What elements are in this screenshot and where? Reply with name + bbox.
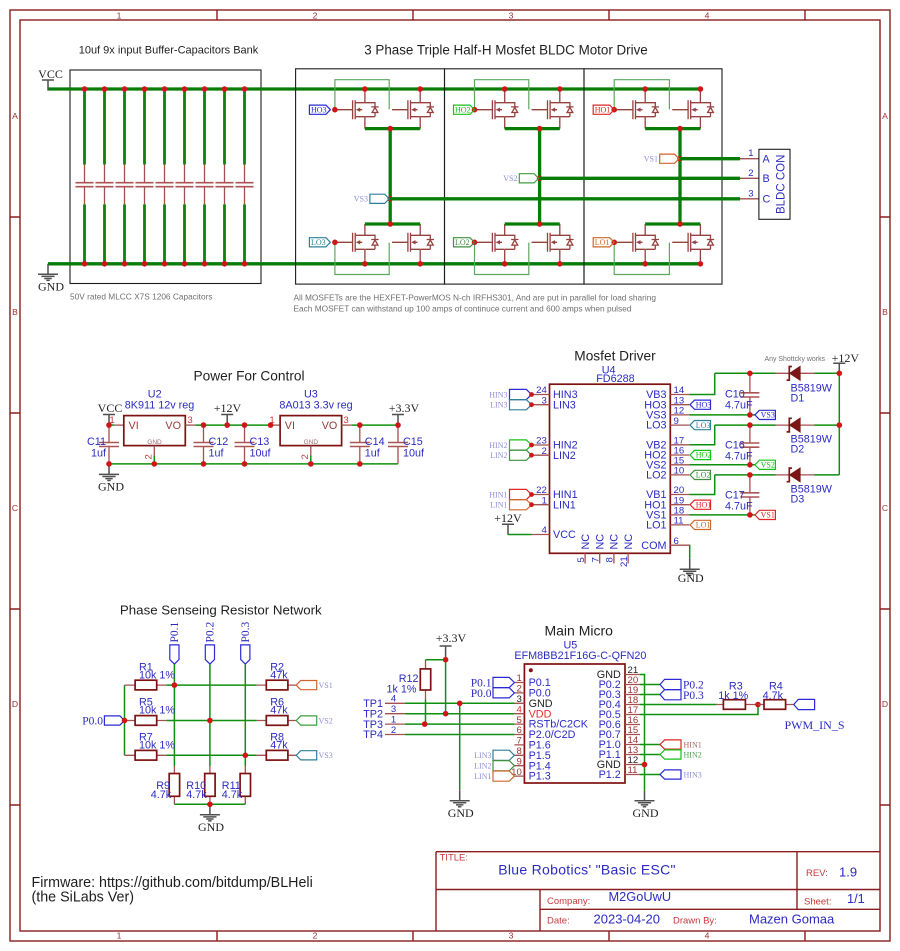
- svg-text:4.7k: 4.7k: [763, 690, 784, 702]
- svg-text:LIN1: LIN1: [490, 501, 507, 510]
- wire column P0.1: [173, 664, 175, 766]
- svg-text:Date:: Date:: [547, 916, 570, 927]
- resistor R2: [257, 684, 297, 686]
- driver U4 body: [550, 384, 671, 553]
- regulator U2 body: [124, 416, 186, 446]
- resistor R4: [758, 704, 794, 706]
- svg-text:Power For Control: Power For Control: [193, 369, 304, 384]
- svg-text:VS3: VS3: [354, 195, 368, 204]
- svg-text:3 Phase Triple Half-H Mosfet B: 3 Phase Triple Half-H Mosfet BLDC Motor …: [364, 43, 648, 58]
- svg-text:10: 10: [511, 767, 522, 778]
- wire source bar high-side (phase A): [645, 127, 700, 130]
- capacitor C9 (bank): [236, 86, 254, 266]
- svg-text:1: 1: [541, 495, 546, 506]
- svg-text:B: B: [12, 307, 18, 317]
- flag HO1: [593, 105, 614, 114]
- svg-text:NC: NC: [623, 534, 635, 550]
- wire VB1 to bootstrap rail 1: [689, 475, 839, 495]
- wire U2 to U3: [195, 424, 270, 426]
- wire phase B vertical: [538, 129, 541, 224]
- svg-text:3: 3: [509, 930, 514, 940]
- svg-text:LO3: LO3: [646, 420, 666, 432]
- wire source bar high-side (phase C): [365, 127, 420, 130]
- svg-text:+3.3V: +3.3V: [389, 401, 420, 415]
- wire pin21 GND down: [640, 675, 645, 791]
- junctions sense network: [172, 682, 178, 688]
- svg-text:A: A: [763, 153, 771, 165]
- wire phase A vertical: [678, 129, 681, 224]
- svg-text:VS1: VS1: [761, 511, 775, 520]
- svg-text:Each MOSFET can withstand up 1: Each MOSFET can withstand up 100 amps of…: [294, 304, 632, 314]
- svg-text:VS1: VS1: [319, 681, 333, 690]
- ground (micro right): [635, 790, 655, 807]
- wire GND rail: [48, 262, 700, 265]
- junctions power ground rail: [106, 461, 112, 467]
- svg-text:GND: GND: [448, 806, 474, 820]
- flag LO3 (driver): [690, 421, 711, 430]
- svg-text:HIN2: HIN2: [489, 441, 507, 450]
- svg-text:GND: GND: [633, 806, 659, 820]
- svg-text:D: D: [882, 699, 888, 709]
- flag VS3: [370, 194, 389, 203]
- ground (micro left): [450, 790, 470, 807]
- svg-text:4.7uF: 4.7uF: [725, 500, 753, 512]
- svg-text:VCC: VCC: [38, 67, 63, 81]
- wire HO3 gate net: [335, 109, 337, 111]
- svg-text:D: D: [12, 699, 18, 709]
- capacitor C17: [740, 475, 759, 515]
- svg-text:3: 3: [748, 188, 753, 199]
- capacitor C4 (bank): [136, 86, 154, 266]
- svg-text:GND: GND: [304, 439, 319, 446]
- wire VS2: [689, 464, 755, 466]
- svg-text:LIN3: LIN3: [553, 399, 576, 411]
- svg-text:P1.2: P1.2: [599, 769, 621, 781]
- svg-text:4.7k: 4.7k: [186, 789, 207, 801]
- flag LO1 (driver): [690, 520, 711, 529]
- flag P0.2 (down): [205, 645, 214, 664]
- svg-text:10: 10: [674, 466, 685, 477]
- svg-text:2: 2: [313, 11, 318, 21]
- wire P1.0 to HIN1 flag: [640, 744, 660, 746]
- svg-text:GND: GND: [147, 439, 162, 446]
- svg-text:1uf: 1uf: [365, 448, 381, 460]
- svg-text:47k: 47k: [270, 740, 288, 752]
- capacitor C7 (bank): [196, 86, 214, 266]
- junction R3-R4: [755, 702, 761, 708]
- flag P0.3 (down): [241, 645, 250, 664]
- wire VB3 to bootstrap rail 3: [689, 373, 839, 394]
- svg-text:NC: NC: [609, 534, 621, 550]
- svg-text:GND: GND: [98, 480, 124, 494]
- svg-text:Mazen Gomaa: Mazen Gomaa: [749, 912, 835, 927]
- flag P0.2 (micro): [660, 679, 681, 689]
- testpoint TP leads: [385, 703, 405, 734]
- svg-text:VCC: VCC: [553, 529, 576, 541]
- capacitor C12: [194, 425, 214, 464]
- svg-text:HIN1: HIN1: [684, 740, 702, 749]
- svg-text:LO2: LO2: [696, 471, 711, 480]
- svg-text:4.7uF: 4.7uF: [725, 451, 753, 463]
- svg-text:P0.0: P0.0: [82, 716, 103, 728]
- svg-text:REV:: REV:: [806, 868, 828, 879]
- wire VS1: [689, 514, 755, 516]
- svg-text:VS1: VS1: [644, 154, 658, 163]
- wire P0.3 to flag: [640, 694, 660, 696]
- resistor R6: [257, 720, 297, 722]
- svg-text:+3.3V: +3.3V: [436, 631, 467, 645]
- svg-text:FD6288: FD6288: [596, 373, 634, 385]
- svg-text:LO2: LO2: [455, 238, 470, 247]
- svg-text:50V rated MLCC X7S 1206 Capaci: 50V rated MLCC X7S 1206 Capacitors: [70, 292, 213, 302]
- svg-text:D3: D3: [791, 493, 805, 505]
- resistor R10: [209, 766, 211, 804]
- svg-text:4.7k: 4.7k: [151, 789, 172, 801]
- flag HO3: [309, 105, 330, 114]
- svg-text:All MOSFETs are the HEXFET-Pow: All MOSFETs are the HEXFET-PowerMOS N-ch…: [294, 293, 657, 303]
- mosfet drive enclosure box phase A: [584, 69, 722, 284]
- svg-text:1: 1: [117, 11, 122, 21]
- svg-text:BLDC CON: BLDC CON: [776, 155, 788, 214]
- svg-text:VS2: VS2: [319, 716, 333, 725]
- wire P1.2 to HIN3 flag: [640, 774, 660, 776]
- junctions micro left: [457, 701, 463, 707]
- svg-text:B: B: [882, 307, 888, 317]
- wire drain bar low-side (phase C): [365, 222, 420, 225]
- wire phase B to connector: [540, 177, 740, 180]
- svg-text:LO1: LO1: [646, 520, 666, 532]
- flag LO1: [593, 238, 614, 247]
- svg-text:LIN2: LIN2: [490, 451, 507, 460]
- svg-text:11: 11: [628, 765, 638, 776]
- transistor Q4 low-side right (phase C): [392, 224, 434, 261]
- wire +12V to U4 VCC: [508, 534, 532, 536]
- svg-text:3: 3: [509, 11, 514, 21]
- wire COM to ground: [688, 545, 690, 559]
- svg-text:+12V: +12V: [214, 401, 242, 415]
- flag HO2 (driver): [690, 450, 711, 459]
- flag LIN3 (driver input): [510, 400, 532, 410]
- wire P0.5 riser: [640, 705, 758, 715]
- svg-text:LO3: LO3: [696, 421, 711, 430]
- svg-text:8: 8: [605, 557, 616, 562]
- transistor Q1 high-side left (phase C): [337, 91, 379, 128]
- wire HO1 gate net: [614, 109, 617, 111]
- transistor Q3 low-side left (phase C): [337, 224, 379, 261]
- junctions driver right: [747, 371, 753, 377]
- flag P0.0 (micro): [493, 688, 514, 698]
- flag LIN1 (micro): [493, 771, 514, 781]
- ground (power section): [99, 464, 119, 481]
- svg-text:HIN2: HIN2: [684, 750, 702, 759]
- wire phase C vertical: [389, 129, 392, 224]
- svg-text:4: 4: [705, 11, 710, 21]
- svg-text:47k: 47k: [270, 705, 288, 717]
- svg-text:1/1: 1/1: [847, 891, 865, 906]
- transistor Q12 low-side right (phase A): [672, 224, 714, 261]
- svg-text:HO1: HO1: [696, 500, 712, 509]
- U4 right pin leads: [670, 395, 689, 546]
- flag PWM_IN_S: [794, 699, 815, 709]
- wire LO3 gate net: [335, 241, 337, 243]
- svg-text:GND: GND: [38, 280, 64, 294]
- capacitor C1 (bank): [76, 86, 94, 266]
- transistor Q8 low-side right (phase B): [532, 224, 574, 261]
- svg-text:LIN3: LIN3: [474, 751, 491, 760]
- svg-text:2: 2: [300, 454, 311, 459]
- svg-text:2: 2: [748, 168, 753, 179]
- svg-text:+12V: +12V: [494, 511, 522, 525]
- resistor R7: [125, 754, 167, 756]
- svg-text:2: 2: [313, 930, 318, 940]
- flag VS2 (driver): [755, 460, 776, 469]
- svg-text:2: 2: [391, 725, 396, 736]
- svg-text:6: 6: [516, 725, 521, 736]
- wire TP3 to RSTb pin: [405, 723, 515, 725]
- wire sense ground rail: [174, 803, 245, 805]
- resistor R8: [257, 754, 297, 756]
- resistor R9: [173, 766, 175, 804]
- svg-text:Mosfet Driver: Mosfet Driver: [574, 349, 656, 364]
- svg-text:1.9: 1.9: [839, 864, 857, 879]
- title block outline: [436, 852, 880, 931]
- svg-text:B: B: [763, 173, 770, 185]
- junctions phase A: [642, 86, 648, 92]
- diode D1: [775, 366, 814, 380]
- ground (driver COM): [680, 559, 700, 576]
- flag HIN1 (driver input): [510, 489, 532, 499]
- svg-text:GND: GND: [678, 571, 704, 585]
- svg-text:10k 1%: 10k 1%: [139, 705, 175, 717]
- connector BLDC CON body: [759, 149, 790, 219]
- svg-text:COM: COM: [641, 540, 666, 552]
- svg-text:PWM_IN_S: PWM_IN_S: [785, 718, 845, 732]
- svg-text:LIN1: LIN1: [474, 772, 491, 781]
- svg-text:4.7k: 4.7k: [222, 789, 243, 801]
- svg-text:4: 4: [705, 930, 710, 940]
- wire row VS3: [166, 754, 256, 756]
- svg-text:VI: VI: [285, 420, 295, 432]
- svg-text:4: 4: [541, 525, 547, 536]
- svg-text:1: 1: [748, 148, 753, 159]
- svg-text:P0.3: P0.3: [683, 690, 704, 702]
- resistor R12: [425, 660, 427, 700]
- svg-text:NC: NC: [580, 534, 592, 550]
- mosfet drive enclosure box phase C: [296, 69, 445, 284]
- regulator U3 pin2 lead: [310, 446, 312, 456]
- svg-text:10k 1%: 10k 1%: [139, 740, 175, 752]
- svg-text:LIN2: LIN2: [474, 762, 491, 771]
- flag HIN3 (micro): [660, 770, 681, 779]
- svg-text:VS2: VS2: [761, 461, 775, 470]
- wire column P0.3: [244, 664, 246, 766]
- regulator U2 pin2 lead: [153, 446, 155, 456]
- svg-text:HO2: HO2: [455, 105, 471, 114]
- capacitor C14: [350, 425, 370, 464]
- wire LO2 gate net: [475, 241, 477, 243]
- wire TP2 to VDD pin: [405, 713, 515, 715]
- svg-text:10uf 9x input Buffer-Capacitor: 10uf 9x input Buffer-Capacitors Bank: [79, 45, 259, 57]
- capacitor C8 (bank): [216, 86, 234, 266]
- transistor Q11 low-side left (phase A): [617, 224, 659, 261]
- svg-text:8A013 3.3v reg: 8A013 3.3v reg: [279, 400, 352, 412]
- diode D2: [775, 418, 814, 432]
- flag LIN2 (driver input): [510, 450, 532, 460]
- svg-text:LO1: LO1: [696, 521, 711, 530]
- svg-text:Main Micro: Main Micro: [544, 623, 613, 639]
- svg-text:1uf: 1uf: [91, 448, 107, 460]
- svg-text:D2: D2: [791, 444, 805, 456]
- svg-text:C: C: [12, 503, 18, 513]
- wire VCC to U2: [109, 424, 114, 426]
- svg-text:Company:: Company:: [547, 896, 590, 907]
- junctions power top rail: [106, 422, 112, 428]
- flag VS1 (driver): [755, 510, 776, 519]
- wire +12V vertical: [838, 373, 840, 475]
- svg-text:9: 9: [516, 756, 521, 767]
- svg-text:47k: 47k: [270, 669, 288, 681]
- svg-text:1k 1%: 1k 1%: [386, 684, 416, 696]
- svg-text:LIN1: LIN1: [553, 499, 576, 511]
- svg-text:VO: VO: [165, 420, 181, 432]
- flag LIN3 (micro): [493, 750, 514, 760]
- svg-text:HO1: HO1: [595, 105, 611, 114]
- svg-text:HO3: HO3: [311, 105, 327, 114]
- svg-text:NC: NC: [594, 534, 606, 550]
- svg-text:EFM8BB21F16G-C-QFN20: EFM8BB21F16G-C-QFN20: [514, 650, 646, 662]
- svg-text:1: 1: [516, 673, 521, 684]
- svg-text:8: 8: [516, 746, 521, 757]
- flag LIN1 (driver input): [510, 500, 532, 510]
- flag VS3 (sense): [296, 751, 317, 760]
- ground (sense network): [200, 804, 220, 821]
- flag P0.1 (micro): [493, 677, 514, 687]
- svg-text:P0.0: P0.0: [471, 688, 492, 700]
- svg-text:LO1: LO1: [595, 238, 610, 247]
- svg-text:Blue Robotics' "Basic ESC": Blue Robotics' "Basic ESC": [498, 862, 676, 878]
- transistor Q2 high-side right (phase C): [392, 91, 434, 128]
- flag VS3 (driver): [755, 410, 776, 419]
- wire column P0.2: [209, 664, 211, 766]
- svg-text:LIN2: LIN2: [553, 450, 576, 462]
- flag VS2 (sense): [296, 716, 317, 725]
- wire TP1 to GND pin: [405, 702, 515, 704]
- svg-text:11: 11: [674, 516, 684, 527]
- svg-text:8K911 12v reg: 8K911 12v reg: [125, 400, 194, 412]
- svg-text:2023-04-20: 2023-04-20: [594, 912, 661, 927]
- svg-text:C: C: [763, 193, 771, 205]
- U5 left pin leads: [514, 683, 524, 777]
- svg-text:HIN3: HIN3: [684, 770, 702, 779]
- svg-text:M2GoUwU: M2GoUwU: [609, 889, 672, 904]
- capacitor C11: [99, 425, 119, 464]
- net VCC symbol: [42, 80, 54, 91]
- junctions phase B: [502, 86, 508, 92]
- svg-text:P1.3: P1.3: [529, 771, 551, 783]
- svg-text:10uf: 10uf: [403, 448, 425, 460]
- flag VS1 (sense): [296, 681, 317, 690]
- wire TP4 to P2.0 pin: [405, 734, 515, 736]
- svg-text:(the SiLabs Ver): (the SiLabs Ver): [32, 890, 135, 906]
- wire VB2 to bootstrap rail 2: [689, 425, 839, 445]
- svg-text:VO: VO: [322, 420, 338, 432]
- svg-text:7: 7: [591, 557, 602, 562]
- svg-text:A: A: [12, 111, 18, 121]
- svg-text:C13: C13: [250, 436, 270, 448]
- svg-text:2: 2: [541, 446, 546, 457]
- svg-text:6: 6: [674, 536, 679, 547]
- flag LO2: [454, 238, 475, 247]
- regulator U3 pin3 lead: [342, 424, 352, 426]
- svg-text:Drawn By:: Drawn By:: [673, 916, 717, 927]
- svg-text:VCC: VCC: [98, 401, 123, 415]
- flag HIN2 (micro): [660, 750, 681, 759]
- flag HO2: [454, 105, 475, 114]
- svg-text:3: 3: [541, 395, 546, 406]
- svg-text:C15: C15: [403, 436, 423, 448]
- wire phase A to connector: [680, 157, 740, 160]
- svg-text:P0.3: P0.3: [240, 621, 252, 642]
- svg-text:VS2: VS2: [503, 174, 517, 183]
- wire drain bar low-side (phase A): [645, 222, 700, 225]
- transistor Q10 high-side right (phase A): [672, 91, 714, 128]
- svg-text:LO3: LO3: [311, 238, 326, 247]
- svg-text:5: 5: [516, 715, 521, 726]
- svg-text:LO2: LO2: [646, 470, 666, 482]
- svg-text:9: 9: [674, 416, 679, 427]
- capacitor C6 (bank): [176, 86, 194, 266]
- capacitor C2 (bank): [96, 86, 114, 266]
- resistor R11: [244, 766, 246, 804]
- flag VS2: [519, 174, 538, 183]
- svg-text:P0.2: P0.2: [205, 621, 217, 642]
- mosfet drive enclosure box phase B: [445, 69, 585, 284]
- transistor Q6 high-side right (phase B): [532, 91, 574, 128]
- svg-text:LIN3: LIN3: [490, 401, 507, 410]
- connector BLDC CON pin leads: [740, 159, 759, 199]
- regulator U2 pin3 lead: [185, 424, 195, 426]
- svg-text:1: 1: [391, 714, 396, 725]
- svg-text:TITLE:: TITLE:: [440, 852, 469, 863]
- transistor Q7 low-side left (phase B): [477, 224, 519, 261]
- svg-text:1uf: 1uf: [209, 448, 225, 460]
- regulator U3 pin1 lead: [270, 424, 280, 426]
- svg-text:C12: C12: [209, 436, 229, 448]
- svg-text:1: 1: [117, 930, 122, 940]
- svg-text:HIN3: HIN3: [489, 390, 507, 399]
- resistor R1: [125, 684, 167, 686]
- svg-text:2: 2: [516, 684, 521, 695]
- svg-text:D1: D1: [791, 393, 805, 405]
- wire row VS1: [166, 684, 256, 686]
- wire GND vertical (micro left): [459, 703, 461, 790]
- wire LO1 gate net: [614, 241, 617, 243]
- wire pin12 GND: [640, 764, 645, 766]
- svg-text:3: 3: [343, 415, 348, 426]
- svg-text:C: C: [882, 503, 888, 513]
- flag HIN2 (driver input): [510, 440, 532, 450]
- svg-text:4: 4: [516, 704, 522, 715]
- regulator U2 pin1 lead: [114, 424, 124, 426]
- svg-text:2: 2: [144, 454, 155, 459]
- wire row VS2: [166, 720, 256, 722]
- flag LO2 (driver): [690, 470, 711, 479]
- svg-text:7: 7: [516, 736, 521, 747]
- svg-text:TP4: TP4: [363, 729, 383, 741]
- svg-text:A: A: [882, 111, 888, 121]
- svg-text:C11: C11: [87, 436, 106, 448]
- wire +3.3V vertical: [445, 657, 447, 714]
